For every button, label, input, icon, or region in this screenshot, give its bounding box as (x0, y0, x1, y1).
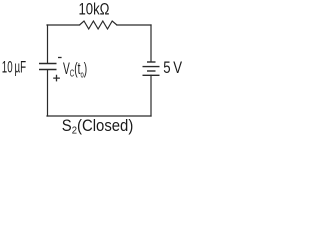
wire top-left segment (47, 24, 80, 26)
wire bottom (47, 115, 151, 117)
wire left lower (capacitor down to bottom-left corner) (47, 70, 49, 116)
svg-text:10 µF: 10 µF (2, 59, 26, 77)
svg-text:10kΩ: 10kΩ (79, 1, 110, 19)
label S2(Closed) switch (62, 117, 133, 137)
battery V1 plate long (143, 66, 160, 68)
svg-text:VC(to): VC(to) (63, 60, 87, 81)
wire top-right segment (117, 24, 151, 26)
capacitor C bottom plate (39, 69, 57, 71)
wire right upper (top-right corner down to battery) (150, 25, 152, 62)
minus sign of Vc (58, 57, 62, 59)
battery V1 plate short lower (147, 70, 156, 72)
wire right lower (battery down to bottom-right corner) (150, 75, 152, 116)
wire left upper (top-left corner down to capacitor) (47, 25, 49, 63)
battery V1 plate long bottom (143, 74, 160, 76)
battery V1 plate short top (147, 61, 156, 63)
label 10kΩ resistor value (79, 1, 110, 19)
label Vc(to) capacitor voltage (63, 60, 87, 81)
label 5 V battery value (163, 59, 182, 77)
svg-text:5 V: 5 V (163, 59, 182, 77)
plus sign of Vc (53, 75, 60, 82)
resistor R 10kΩ zigzag (80, 21, 117, 29)
label 10 µF capacitor value (2, 59, 26, 77)
capacitor C top plate (39, 63, 57, 65)
svg-text:S2(Closed): S2(Closed) (62, 117, 133, 137)
